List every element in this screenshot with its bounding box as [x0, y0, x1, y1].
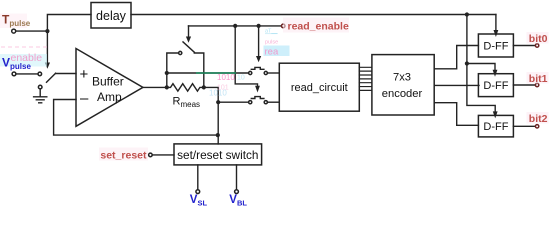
wire sense line to upper read switch	[167, 72, 249, 74]
svg-text:encoder: encoder	[382, 88, 423, 100]
switch S2 blade	[183, 42, 194, 52]
node amp output junction	[165, 85, 169, 89]
svg-text:rea: rea	[265, 47, 279, 58]
ghost artifact green line	[196, 72, 236, 74]
switch S1 blade	[47, 73, 56, 82]
node sense branch junction	[165, 71, 169, 75]
wire lower read switch line	[218, 101, 248, 103]
node clock trunk junction	[465, 12, 469, 16]
node Tpulse junction dot	[45, 29, 49, 33]
wire shunt switch left leg	[167, 53, 179, 87]
wire VSL stub	[197, 165, 199, 190]
svg-text:bit2: bit2	[529, 113, 548, 125]
D-FF U4 bit2	[478, 115, 513, 136]
wire encoder out bit0	[434, 46, 478, 69]
wire clock to bit1	[467, 64, 495, 71]
svg-text:read_circuit: read_circuit	[291, 82, 348, 94]
svg-text:D-FF: D-FF	[483, 80, 508, 92]
node set_reset terminal	[149, 153, 153, 157]
wire upper switch to read_circuit	[268, 72, 280, 74]
svg-text:bit0: bit0	[529, 33, 548, 45]
node upper switch right contact	[264, 71, 267, 74]
svg-text:read_enable: read_enable	[288, 21, 349, 33]
node read_enable branch B	[257, 24, 261, 28]
node Tpulse terminal	[12, 29, 16, 33]
svg-text:1010: 1010	[217, 73, 235, 82]
wire lower switch control path	[235, 26, 257, 86]
resistor Rmeas	[167, 84, 204, 91]
wire Tpulse to junction	[16, 30, 48, 32]
svg-text:set/reset switch: set/reset switch	[177, 148, 258, 162]
node upper switch left contact	[249, 71, 252, 74]
node lower switch right contact	[264, 101, 267, 104]
node feedback junction	[216, 133, 220, 137]
wire Tpulse control drop with arrow	[46, 31, 48, 63]
op-amp U1 buffer	[76, 49, 143, 127]
wire encoder out bit2	[434, 103, 478, 126]
wire lower switch to read_circuit	[268, 101, 280, 103]
node Vpulse switch contact	[38, 72, 42, 76]
wire clock drop to bit0	[495, 15, 497, 31]
wire clock vertical	[466, 15, 468, 64]
wire upper switch control arrow	[258, 26, 260, 57]
halo bit1	[527, 72, 549, 84]
halo set_reset	[99, 148, 148, 161]
read_circuit block	[279, 63, 359, 111]
encoder block	[372, 55, 434, 115]
node bit0 terminal	[535, 44, 538, 47]
wire set_reset to block	[152, 154, 174, 156]
node lower switch left contact	[249, 101, 252, 104]
wire shunt switch right leg	[194, 53, 204, 87]
switch S3 bar	[251, 67, 264, 69]
D-FF U3 bit1	[478, 74, 513, 97]
wire amp output	[143, 86, 167, 88]
svg-text:1010: 1010	[209, 89, 227, 98]
wire clock to bit2	[467, 64, 495, 112]
wire ground lead	[39, 89, 41, 97]
ghost artifact cyan block	[0, 54, 47, 67]
svg-text:bit1: bit1	[529, 73, 548, 85]
switch S4 bar	[251, 97, 264, 99]
ground	[34, 97, 47, 103]
svg-text:delay: delay	[96, 9, 127, 23]
set/reset switch block	[174, 144, 262, 165]
node Rmeas right junction	[202, 85, 206, 89]
svg-text:7x3: 7x3	[393, 72, 411, 84]
svg-text:Amp: Amp	[97, 90, 122, 104]
wire bit0 output	[513, 45, 535, 47]
node read_enable branch C	[233, 24, 237, 28]
node VSL terminal	[196, 190, 200, 194]
node bit1 terminal	[535, 83, 538, 86]
halo bit2	[527, 112, 549, 124]
wire bit1 output	[513, 84, 535, 86]
node read_enable terminal	[281, 24, 285, 28]
halo Tpulse	[0, 14, 27, 29]
node Vpulse terminal	[12, 72, 16, 76]
node VBL terminal	[235, 190, 239, 194]
ghost artifact pink dashes	[1, 46, 50, 48]
node shunt switch left contact	[179, 51, 182, 54]
svg-text:–: –	[80, 90, 89, 107]
svg-text:+: +	[80, 66, 89, 83]
wire blade to amp +	[56, 73, 76, 75]
svg-text:Buffer: Buffer	[92, 74, 124, 88]
svg-text:set_reset: set_reset	[100, 150, 147, 162]
halo read_enable	[283, 18, 349, 33]
svg-text:D-FF: D-FF	[483, 121, 508, 133]
wire encoder out bit1	[434, 84, 479, 86]
svg-text:10: 10	[237, 75, 245, 82]
wire Vpulse to contact	[16, 73, 38, 75]
node ground contact	[38, 85, 42, 89]
halo bit0	[527, 32, 549, 44]
wire amp - input feedback	[54, 100, 218, 136]
D-FF U2 bit0	[478, 34, 513, 57]
node clock branch bit1	[465, 61, 469, 65]
wire VBL stub	[236, 165, 238, 190]
svg-text:D-FF: D-FF	[483, 41, 508, 53]
ghost artifact blue box	[264, 46, 290, 57]
delay block	[91, 3, 131, 29]
wire bit2 output	[513, 125, 535, 127]
node bit2 terminal	[535, 125, 538, 128]
svg-text:pulse: pulse	[265, 40, 278, 46]
wire Rmeas out to lower branch	[204, 87, 218, 143]
wire shunt switch control arrow	[188, 26, 190, 37]
wire junction up to delay input	[47, 15, 91, 32]
bus read_circuit to encoder	[359, 67, 372, 90]
node lower switch branch junction	[216, 100, 220, 104]
svg-text:aT__: aT__	[265, 29, 278, 35]
wire delay output clock trunk	[131, 14, 496, 16]
wire read_enable line	[189, 25, 282, 27]
